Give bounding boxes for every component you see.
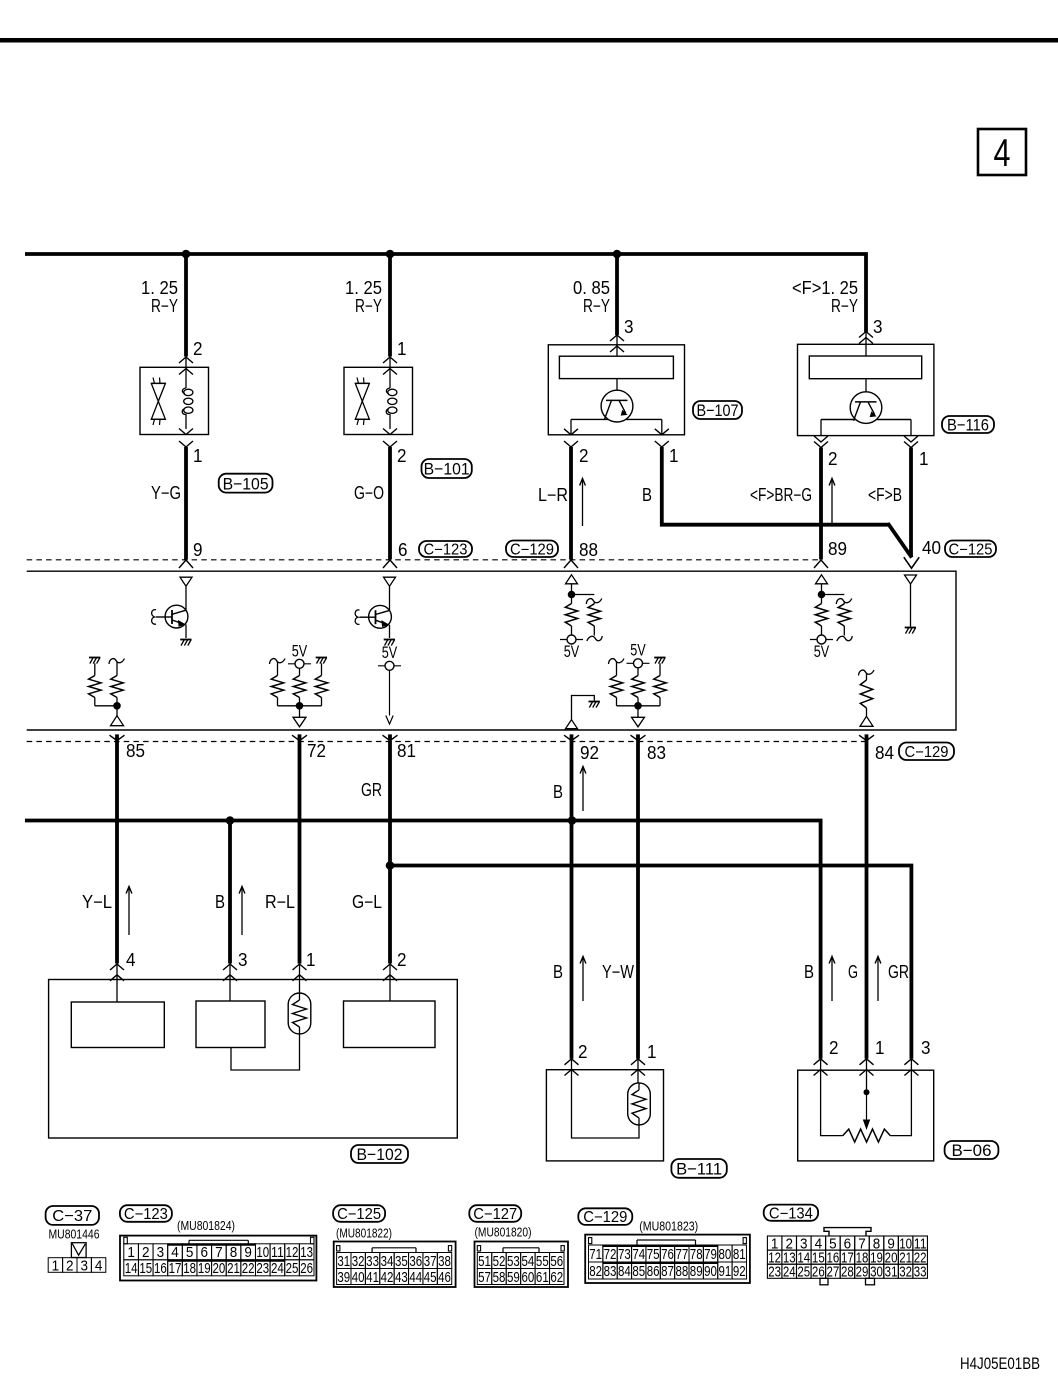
wire pin 92 to B-111 pin 2 <box>570 734 574 1058</box>
resistor R7 right of 88 <box>586 599 602 605</box>
input triangle pin 89 <box>816 575 828 584</box>
resistor R10 group 83 left <box>609 659 625 665</box>
svg-text:78: 78 <box>690 1246 703 1263</box>
chevron pin 89 <box>814 560 828 568</box>
connector dashed line top <box>27 559 818 561</box>
connector table C-129 <box>589 1245 603 1262</box>
connector chevrons B-102 <box>293 964 307 970</box>
relay block 1 inside B-102 <box>71 1002 164 1048</box>
svg-text:(MU801822): (MU801822) <box>336 1226 392 1241</box>
wire B from B-107 pin 1 to C-125 pin 40 <box>662 447 890 525</box>
svg-text:16: 16 <box>154 1260 167 1277</box>
wire B-06 pin 3 internal <box>890 1059 911 1136</box>
svg-text:28: 28 <box>841 1264 854 1280</box>
wire B-116 pin 2 leg <box>820 420 822 436</box>
connector label C-129 top <box>506 541 558 558</box>
potentiometer wiper arrow B-06 <box>866 1092 868 1121</box>
svg-text:5V: 5V <box>564 642 580 661</box>
connector chevrons B-06 pin 2 <box>814 1059 828 1065</box>
ECU B-102 box <box>49 980 458 1139</box>
connector label C-129 bottom table <box>578 1208 632 1225</box>
svg-text:7: 7 <box>215 1244 223 1261</box>
svg-text:2: 2 <box>193 339 203 359</box>
component label B-105 <box>219 474 273 493</box>
transistor Q2 <box>369 605 392 628</box>
connector table C-125 <box>337 1253 351 1269</box>
svg-text:61: 61 <box>536 1269 549 1286</box>
svg-text:1. 25: 1. 25 <box>345 278 382 298</box>
svg-text:31: 31 <box>337 1253 350 1270</box>
connector table C-134 <box>767 1236 782 1250</box>
svg-text:GR: GR <box>888 962 909 982</box>
wire inside B-107 <box>616 379 618 400</box>
ECU box outline <box>27 571 956 730</box>
svg-text:5V: 5V <box>382 643 398 662</box>
wire B-107 pin 1 leg <box>661 419 663 434</box>
junction dot node C <box>613 250 622 259</box>
svg-text:35: 35 <box>395 1253 408 1270</box>
signal arrow B-111 pin2 <box>582 958 584 1001</box>
wire from coil to block 2 <box>231 1034 300 1070</box>
svg-text:Y−W: Y−W <box>602 962 634 982</box>
wire G-O from B-101 to C-123 pin 6 <box>388 447 392 560</box>
ground under Q2 <box>384 639 395 641</box>
svg-text:R−Y: R−Y <box>583 296 610 316</box>
solenoid coil inside B-102 <box>288 993 311 1034</box>
junction dot bus B at 92 <box>568 816 577 825</box>
connector chevrons B-105 pin 2 <box>179 357 193 363</box>
chevron pin 6 <box>383 560 397 568</box>
svg-text:32: 32 <box>352 1253 365 1270</box>
svg-text:83: 83 <box>647 743 666 763</box>
junction dot node 89 <box>818 591 826 599</box>
svg-text:60: 60 <box>521 1269 534 1286</box>
svg-text:Y−G: Y−G <box>151 483 181 503</box>
wire pin 92 to ground <box>572 696 595 720</box>
svg-text:B: B <box>553 962 563 982</box>
svg-text:17: 17 <box>169 1260 182 1277</box>
svg-text:B: B <box>215 892 225 912</box>
svg-text:89: 89 <box>690 1263 703 1280</box>
svg-text:3: 3 <box>80 1257 88 1274</box>
connector label C-127 bottom <box>469 1205 521 1222</box>
svg-text:59: 59 <box>507 1269 520 1286</box>
svg-text:R−Y: R−Y <box>831 296 858 316</box>
svg-text:43: 43 <box>395 1269 408 1286</box>
svg-text:9: 9 <box>193 540 203 560</box>
wire branch to B-107 pin 3 <box>615 254 619 335</box>
svg-text:45: 45 <box>424 1269 437 1286</box>
wire L-R from B-107 pin 2 to C-129 pin 88 <box>569 447 573 560</box>
svg-text:5V: 5V <box>630 640 646 659</box>
svg-text:34: 34 <box>381 1253 394 1270</box>
svg-text:5V: 5V <box>814 642 830 661</box>
svg-text:MU801446: MU801446 <box>49 1227 100 1242</box>
svg-text:71: 71 <box>589 1246 602 1263</box>
svg-text:6: 6 <box>201 1244 209 1261</box>
sensor B-06 box <box>798 1070 934 1161</box>
svg-text:B−102: B−102 <box>357 1145 403 1164</box>
svg-text:B: B <box>642 485 652 505</box>
connector chevrons B-116 pin 3 <box>859 332 873 338</box>
ground under Q1 <box>180 639 191 641</box>
connector table C-37 <box>48 1258 62 1273</box>
connector chevrons B-111 pin 2 <box>565 1059 579 1065</box>
lamp B-111 box <box>546 1070 663 1161</box>
connector shell C-125 <box>334 1242 456 1288</box>
resistor R13 above pin 84 <box>859 670 875 676</box>
component label B-111 <box>671 1159 726 1178</box>
wire main power bus <box>25 254 866 332</box>
svg-text:3: 3 <box>624 317 634 337</box>
svg-text:3: 3 <box>873 317 883 337</box>
svg-text:87: 87 <box>661 1263 674 1280</box>
svg-text:R−Y: R−Y <box>355 296 382 316</box>
svg-text:(MU801824): (MU801824) <box>177 1218 235 1233</box>
connector shell C-127 <box>475 1242 569 1288</box>
svg-text:86: 86 <box>647 1263 660 1280</box>
svg-text:1: 1 <box>669 446 679 466</box>
connector chevrons B-102 <box>223 964 237 970</box>
svg-text:<F>BR−G: <F>BR−G <box>750 485 812 505</box>
resistor R6 under 88 <box>571 595 573 604</box>
svg-text:89: 89 <box>828 539 847 559</box>
svg-text:72: 72 <box>307 741 326 761</box>
svg-text:40: 40 <box>352 1269 365 1286</box>
connector label C-134 bottom <box>764 1205 818 1221</box>
wire horizontal bus B <box>25 821 821 1059</box>
potentiometer resistor B-06 <box>843 1129 891 1142</box>
svg-text:85: 85 <box>632 1263 645 1280</box>
wire Y-G from B-105 to C-123 pin 9 <box>184 447 188 560</box>
svg-text:36: 36 <box>409 1253 422 1270</box>
junction dot node A <box>182 250 191 259</box>
svg-text:52: 52 <box>493 1253 506 1270</box>
component label B-101 <box>422 459 472 478</box>
svg-text:L−R: L−R <box>538 485 568 505</box>
svg-text:2: 2 <box>578 1042 588 1062</box>
svg-text:9: 9 <box>244 1244 252 1261</box>
svg-text:C−129: C−129 <box>583 1209 627 1226</box>
resistor R1 pull pair left <box>89 657 100 659</box>
signal arrow B bus <box>241 888 243 935</box>
svg-text:21: 21 <box>227 1260 240 1277</box>
svg-text:B−101: B−101 <box>424 460 470 479</box>
input triangle pin 92 <box>566 720 578 729</box>
svg-text:14: 14 <box>125 1260 138 1277</box>
output stage line inside B-116 <box>821 419 911 421</box>
chevron pin 72 <box>292 735 307 740</box>
signal arrow B-06 pin1 <box>877 958 879 1001</box>
resistor R9 right of 89 <box>836 599 852 605</box>
svg-text:5V: 5V <box>292 642 308 661</box>
transistor symbol inside B-116 <box>850 392 882 424</box>
svg-text:24: 24 <box>783 1264 796 1280</box>
signal arrow pin 92 upper <box>582 768 584 811</box>
svg-text:3: 3 <box>238 950 248 970</box>
transistor Q1 <box>165 605 188 628</box>
svg-text:B−107: B−107 <box>697 401 739 420</box>
wire F BR-G from B-116 pin 2 to C-125 pin 89 <box>819 448 823 560</box>
svg-text:1: 1 <box>647 1042 657 1062</box>
signal arrow Y-L <box>128 888 130 935</box>
wire B-111 pin 1 internal <box>637 1059 639 1083</box>
junction dot node 88 <box>568 591 576 599</box>
svg-text:55: 55 <box>536 1253 549 1270</box>
svg-text:53: 53 <box>507 1253 520 1270</box>
chevron pin 85 <box>110 735 125 740</box>
wire B-116 pin 1 leg <box>910 420 912 436</box>
chevron pin 40 <box>904 557 919 568</box>
svg-text:B: B <box>804 962 814 982</box>
input triangle pin 84 <box>860 716 873 726</box>
svg-text:2: 2 <box>828 449 838 469</box>
svg-text:23: 23 <box>256 1260 269 1277</box>
svg-text:46: 46 <box>438 1269 451 1286</box>
wire joining group 83 to pin 83 <box>617 705 661 707</box>
connector dashed line bottom <box>27 741 866 743</box>
svg-text:G−L: G−L <box>352 892 382 912</box>
component label B-06 <box>945 1141 999 1159</box>
connector label C-123 <box>419 541 472 557</box>
svg-text:4: 4 <box>171 1244 179 1261</box>
svg-text:C−129: C−129 <box>905 744 949 761</box>
wire pin 72 to B-102 pin 1 <box>298 734 302 963</box>
5V supply pin 89 <box>810 639 833 641</box>
input triangle pin 88 <box>566 575 578 584</box>
resistor R3 group 72 left <box>270 659 286 665</box>
wire pin 83 to B-111 pin 1 <box>636 734 640 1058</box>
component label B-116 <box>942 416 994 433</box>
connector chevrons B-102 <box>383 964 397 970</box>
connector label C-123 bottom <box>120 1205 172 1222</box>
svg-text:83: 83 <box>604 1263 617 1280</box>
input triangle pin 9 <box>180 577 192 586</box>
wire branch to B-105 pin 2 <box>184 254 188 357</box>
svg-text:2: 2 <box>579 446 589 466</box>
svg-text:2: 2 <box>142 1244 150 1261</box>
svg-text:92: 92 <box>733 1263 746 1280</box>
coil L2 inside B-101 <box>389 385 391 388</box>
wire pin 85 to B-102 pin 4 <box>115 734 119 963</box>
svg-text:H4J05E01BB: H4J05E01BB <box>960 1354 1040 1373</box>
wire branch to B-101 pin 1 <box>388 254 392 357</box>
wire joining group 72 to pin 72 <box>278 705 322 707</box>
svg-text:54: 54 <box>521 1253 534 1270</box>
svg-text:25: 25 <box>286 1260 299 1277</box>
sensor B-107 box <box>548 345 684 435</box>
svg-text:73: 73 <box>618 1246 631 1263</box>
transistor symbol inside B-107 <box>601 390 633 422</box>
connector chevrons B-107 pin 3 <box>610 335 624 341</box>
svg-text:41: 41 <box>366 1269 379 1286</box>
connector tab C-134 bottom right <box>866 1278 875 1285</box>
svg-text:(MU801823): (MU801823) <box>639 1219 698 1234</box>
coil L1 inside B-105 <box>185 385 187 388</box>
output triangle pin 72 <box>293 717 306 727</box>
svg-text:C−127: C−127 <box>473 1206 517 1223</box>
resistor R8 under 89 <box>821 595 823 604</box>
svg-text:44: 44 <box>409 1269 422 1286</box>
svg-text:90: 90 <box>704 1263 717 1280</box>
svg-text:11: 11 <box>271 1244 284 1261</box>
wire B-06 pin 2 internal <box>821 1059 843 1136</box>
wire B-102 pin 1 internal <box>299 964 301 994</box>
svg-text:C−125: C−125 <box>949 541 993 558</box>
connector label C-125 bottom <box>333 1205 385 1222</box>
connector table C-123 <box>124 1244 139 1260</box>
svg-text:B−06: B−06 <box>952 1141 992 1160</box>
svg-text:5: 5 <box>186 1244 194 1261</box>
connector label C-129 bottom <box>899 743 954 761</box>
resistor R12 group 83 right <box>654 657 665 659</box>
component label B-102 <box>351 1145 408 1163</box>
svg-text:C−37: C−37 <box>52 1208 92 1225</box>
wire B-107 pin 2 leg <box>570 419 572 434</box>
chevron pin 81 <box>383 735 398 740</box>
svg-text:G: G <box>848 962 858 982</box>
svg-text:8: 8 <box>230 1244 238 1261</box>
connector chevrons B-105 pin 1 <box>179 429 193 435</box>
svg-text:1. 25: 1. 25 <box>141 278 178 298</box>
svg-text:13: 13 <box>300 1244 313 1261</box>
relay block 3 inside B-102 <box>344 1001 436 1048</box>
connector tab C-134 <box>824 1228 871 1236</box>
svg-text:2: 2 <box>397 950 407 970</box>
svg-text:2: 2 <box>397 446 407 466</box>
signal arrow near 89 <box>831 480 833 526</box>
wire horizontal bus GR <box>390 866 911 1059</box>
diode D2 inside B-101 <box>355 382 369 384</box>
connector chevrons B-06 pin 3 <box>904 1059 918 1065</box>
svg-text:58: 58 <box>493 1269 506 1286</box>
svg-text:4: 4 <box>95 1257 103 1274</box>
svg-text:80: 80 <box>719 1246 732 1263</box>
chevron pin 9 <box>179 560 193 568</box>
svg-text:84: 84 <box>618 1263 631 1280</box>
svg-text:19: 19 <box>198 1260 211 1277</box>
svg-text:42: 42 <box>381 1269 394 1286</box>
svg-text:GR: GR <box>361 780 382 800</box>
svg-text:39: 39 <box>337 1269 350 1286</box>
wire B-111 pin 2 internal <box>572 1059 640 1138</box>
svg-text:4: 4 <box>126 950 136 970</box>
component label B-107 <box>693 401 742 419</box>
wire 5V to pin 81 with arrowhead <box>389 670 391 715</box>
wire B-102 pin 2 internal <box>389 964 391 1002</box>
connector label C-125 top <box>945 541 996 558</box>
junction dot node B <box>386 250 395 259</box>
svg-text:10: 10 <box>256 1244 269 1261</box>
wire B-102 pin 4 internal <box>116 964 118 1003</box>
svg-text:3: 3 <box>157 1244 165 1261</box>
chevron pin 83 <box>631 735 646 740</box>
connector chevrons B-101 pin 2 <box>383 429 397 435</box>
wire inside B-116 <box>865 379 867 401</box>
wire B-102 pin 3 internal <box>229 964 231 1002</box>
svg-text:<F>1. 25: <F>1. 25 <box>792 278 858 298</box>
solenoid B-105 box <box>140 367 209 434</box>
connector label C-37 <box>46 1206 99 1225</box>
sensor B-116 box <box>798 344 934 435</box>
wire pin 84 to B-06 pin 1 <box>865 734 869 1058</box>
svg-text:3: 3 <box>921 1038 931 1058</box>
svg-text:R−L: R−L <box>265 892 295 912</box>
junction dot bus B at 230 <box>226 816 235 825</box>
svg-text:38: 38 <box>438 1253 451 1270</box>
svg-text:1: 1 <box>52 1257 60 1274</box>
solenoid B-101 box <box>344 367 413 434</box>
wire pin 81 GR down <box>388 734 392 963</box>
signal arrow near 88 <box>582 480 584 526</box>
svg-text:B: B <box>553 782 563 802</box>
svg-text:20: 20 <box>212 1260 225 1277</box>
output stage line inside B-107 <box>571 418 662 420</box>
svg-text:37: 37 <box>424 1253 437 1270</box>
connector shell C-123 <box>120 1236 316 1281</box>
svg-text:<F>B: <F>B <box>868 485 902 505</box>
svg-text:33: 33 <box>914 1264 927 1280</box>
input triangle pin 6 <box>384 577 396 586</box>
element block inside B-116 <box>809 356 921 379</box>
svg-text:24: 24 <box>271 1260 284 1277</box>
svg-text:B−111: B−111 <box>676 1160 722 1179</box>
svg-text:C−129: C−129 <box>510 541 554 558</box>
element block inside B-107 <box>559 356 673 378</box>
svg-text:1: 1 <box>397 339 407 359</box>
svg-text:1: 1 <box>875 1038 885 1058</box>
svg-text:92: 92 <box>580 743 599 763</box>
svg-text:15: 15 <box>139 1260 152 1277</box>
connector shell C-129 <box>585 1235 750 1283</box>
junction dot B-06 wiper <box>864 1089 870 1095</box>
connector key C-37 <box>71 1243 86 1258</box>
svg-text:0. 85: 0. 85 <box>573 278 610 298</box>
svg-text:75: 75 <box>647 1246 660 1263</box>
connector chevrons B-111 pin 1 <box>631 1059 645 1065</box>
svg-text:C−125: C−125 <box>337 1206 381 1223</box>
resistor R11 group 83 middle <box>637 668 639 676</box>
svg-text:(MU801820): (MU801820) <box>475 1225 532 1240</box>
svg-text:22: 22 <box>242 1260 255 1277</box>
svg-text:40: 40 <box>922 538 941 558</box>
svg-text:1: 1 <box>306 950 316 970</box>
page number box 4 <box>978 129 1026 175</box>
svg-text:25: 25 <box>797 1264 810 1280</box>
svg-text:B−116: B−116 <box>947 416 989 435</box>
svg-text:32: 32 <box>899 1264 912 1280</box>
connector tab C-134 bottom left <box>820 1278 828 1285</box>
output triangle pin 83 <box>632 717 645 727</box>
diode D1 inside B-105 <box>151 382 165 384</box>
svg-text:79: 79 <box>704 1246 717 1263</box>
input triangle pin 40 <box>905 575 917 584</box>
svg-text:76: 76 <box>661 1246 674 1263</box>
connector chevrons B-06 pin 1 <box>860 1059 874 1065</box>
svg-text:2: 2 <box>66 1257 74 1274</box>
wire B-06 pin 1 internal <box>866 1059 868 1093</box>
svg-text:C−123: C−123 <box>424 542 468 559</box>
connector chevrons B-101 pin 1 <box>383 357 397 363</box>
svg-text:57: 57 <box>478 1269 491 1286</box>
chevron pin 88 <box>564 560 578 568</box>
heater coil inside B-111 <box>628 1083 651 1125</box>
wire F B from B-116 pin 1 to C-125 pin 40 <box>909 448 913 558</box>
resistor R5 group 72 right <box>316 657 327 659</box>
output triangle pin 85 <box>111 716 124 726</box>
junction dot GR branch <box>386 861 395 870</box>
svg-text:1: 1 <box>127 1244 135 1261</box>
